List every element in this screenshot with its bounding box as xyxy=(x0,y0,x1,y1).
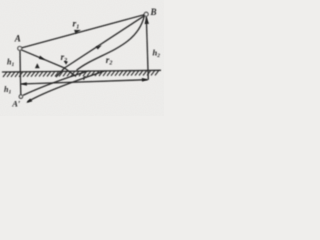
arrowhead on image ray at A' xyxy=(26,99,32,103)
node A circle xyxy=(18,47,22,51)
arrowhead right end of r line xyxy=(142,78,148,82)
arrowhead left end of r line xyxy=(21,82,27,86)
ground line xyxy=(2,70,161,72)
ground hatching xyxy=(3,70,159,77)
wire h2 vertical B to below ground xyxy=(146,16,148,79)
arrowhead up on h2 vertical below B xyxy=(145,17,150,24)
wire direct ray A-B (r1) xyxy=(22,15,145,48)
wire incident ray A-C xyxy=(21,50,64,68)
node A' circle xyxy=(19,95,22,98)
wire h1 vertical A to ground xyxy=(19,51,21,72)
node B circle xyxy=(144,12,148,16)
wire r dimension line xyxy=(21,80,148,84)
wire below-ground stub left of C xyxy=(56,68,65,77)
arrowhead on direct ray r1 xyxy=(74,30,81,34)
wire below-ground stub right of C xyxy=(65,68,77,77)
wire arrowed image ray toward A' xyxy=(27,71,105,102)
wire reflected ray C-B xyxy=(65,15,145,68)
arrowhead small down under r2 label xyxy=(64,61,68,65)
wire second reflected stroke xyxy=(77,16,145,70)
arrowhead on incident ray A-C xyxy=(39,56,45,60)
wire vertical ground to A' xyxy=(19,72,22,96)
wire image line A'-up right xyxy=(23,71,89,96)
arrowhead on reflected ray C-B xyxy=(96,45,102,49)
delta angle symbol xyxy=(35,63,40,68)
